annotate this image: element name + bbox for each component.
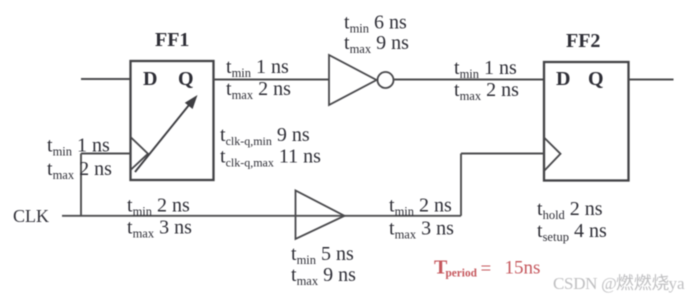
wire D input of FF1	[81, 78, 131, 80]
watermark CJK glyphs	[617, 274, 669, 290]
svg-text:=: =	[481, 259, 492, 280]
svg-text:Q: Q	[588, 68, 604, 90]
label Tperiod = 15ns (red)	[434, 257, 540, 280]
svg-text:D: D	[556, 68, 570, 90]
svg-text:Q: Q	[178, 68, 194, 90]
svg-text:CLK: CLK	[13, 206, 49, 226]
svg-text:FF1: FF1	[155, 29, 189, 51]
svg-text:15ns: 15ns	[505, 258, 541, 279]
wire Q output of FF2	[629, 79, 674, 81]
node junction riser to FF1 clock	[80, 154, 82, 216]
svg-text:D: D	[143, 68, 157, 90]
wire Q of FF1 to inverter	[214, 79, 330, 81]
inverter U1	[329, 55, 394, 105]
clock edge triangle of FF2	[544, 138, 561, 172]
buffer U2 on CLK line	[296, 191, 345, 240]
svg-text:CSDN @: CSDN @	[553, 274, 616, 293]
wire branch to FF1 clock	[81, 153, 131, 155]
svg-text:ya: ya	[669, 274, 686, 293]
svg-text:FF2: FF2	[566, 30, 600, 52]
wire inverter output to FF2 D	[394, 79, 545, 81]
svg-text:period: period	[446, 268, 478, 280]
flip-flop FF1	[131, 61, 214, 180]
clock edge triangle of FF1	[131, 137, 149, 170]
wire branch to FF2 clock	[461, 153, 544, 155]
wire riser to FF2 clock	[460, 154, 462, 216]
clk-to-q arrow inside FF1	[135, 95, 198, 172]
flip-flop FF2	[544, 62, 629, 181]
wire CLK main line	[62, 215, 461, 217]
